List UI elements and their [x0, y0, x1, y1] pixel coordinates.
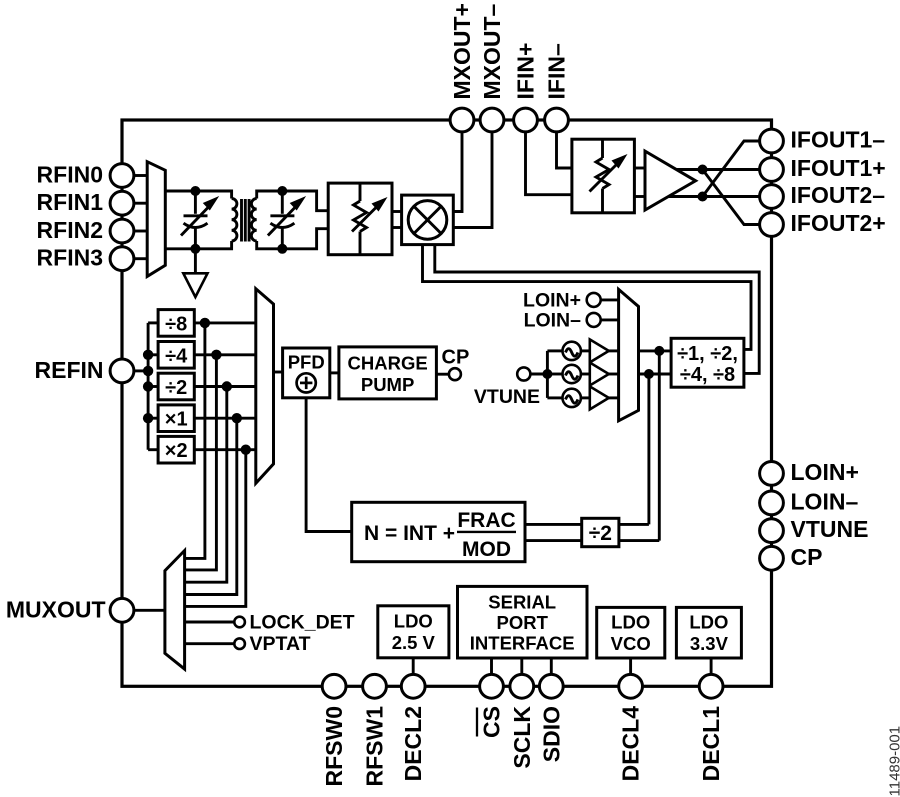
wire RFIN0 stub: [134, 174, 148, 177]
svg-text:IFOUT2+: IFOUT2+: [791, 210, 886, 236]
divider box div2: [158, 373, 194, 400]
node bus x1: [143, 413, 153, 423]
wire bus to div4: [148, 353, 158, 356]
svg-text:LDO: LDO: [611, 612, 650, 633]
svg-text:LOIN+: LOIN+: [791, 459, 859, 485]
pin IFOUT1+: [760, 158, 784, 182]
serial port interface block: [458, 586, 588, 658]
wire x1 down: [185, 418, 237, 594]
wire IF amp output top: [668, 168, 760, 171]
LOIN+ internal terminal: [587, 293, 601, 307]
svg-text:CP: CP: [791, 544, 823, 570]
pin DECL4: [619, 674, 643, 698]
wire VTUNE bus: [546, 351, 549, 398]
wire div2 down: [185, 387, 227, 583]
svg-text:RFIN3: RFIN3: [37, 245, 103, 271]
wire LO mux out lower: [639, 373, 672, 376]
div2 block: [582, 518, 619, 546]
multiplier box x2: [158, 436, 194, 463]
svg-text:LOCK_DET: LOCK_DET: [250, 612, 355, 634]
svg-text:PFD: PFD: [288, 352, 325, 373]
svg-text:CP: CP: [442, 347, 470, 369]
svg-text:×1: ×1: [165, 409, 188, 431]
svg-text:IFIN–: IFIN–: [544, 43, 570, 99]
svg-text:×2: ×2: [165, 440, 188, 462]
svg-text:÷4: ÷4: [165, 345, 188, 367]
pin IFOUT2-: [760, 185, 784, 209]
node div4 out: [211, 350, 221, 360]
pin RFIN1: [110, 191, 134, 215]
pin SCLK: [510, 674, 534, 698]
wire PFD feedback down: [306, 398, 352, 532]
pin REFIN: [110, 359, 134, 383]
wire PFD to charge pump: [330, 371, 339, 374]
oscillator VCO2: [563, 365, 581, 383]
wire attenuator to mixer bottom: [392, 226, 402, 229]
wire IF cross to IFOUT2+: [703, 170, 761, 225]
wire secondary bottom rail: [257, 229, 329, 249]
wire mixer to MXOUT-: [453, 132, 492, 228]
wire REFIN stub: [134, 369, 149, 372]
wire bus to osc2: [547, 373, 562, 376]
node LO upper: [654, 346, 664, 356]
wire mixer to MXOUT+: [453, 132, 462, 212]
wire VPTAT: [185, 642, 235, 645]
node bus REFIN: [143, 366, 153, 376]
wire LOIN+ stub: [601, 298, 619, 301]
pin MXOUT+: [450, 108, 474, 132]
svg-text:INTERFACE: INTERFACE: [470, 633, 575, 654]
wire LOCK_DET: [185, 621, 235, 624]
svg-text:DECL1: DECL1: [698, 706, 724, 782]
transformer T1 primary winding: [232, 199, 237, 242]
svg-text:VTUNE: VTUNE: [474, 386, 540, 408]
svg-text:MUXOUT: MUXOUT: [6, 596, 106, 622]
svg-text:PORT: PORT: [497, 612, 549, 633]
svg-text:CHARGE: CHARGE: [348, 353, 428, 374]
wire REF mux to PFD: [274, 371, 283, 374]
svg-text:DECL2: DECL2: [400, 706, 426, 781]
node RF bottom rail C2: [277, 244, 287, 254]
svg-text:IFOUT1+: IFOUT1+: [791, 155, 886, 181]
wire IFIN- to IF attenuator: [557, 132, 572, 168]
wire lower branch down to div2: [647, 374, 650, 524]
LOCK_DET terminal: [234, 617, 245, 628]
CP internal terminal: [449, 368, 461, 380]
wire div8 down: [185, 323, 205, 559]
svg-text:÷2: ÷2: [589, 522, 612, 545]
wire div2 out: [194, 385, 256, 388]
wire LOIN- stub: [601, 318, 619, 321]
LOIN- internal terminal: [587, 313, 601, 327]
wire osc2 to buffer: [581, 373, 590, 376]
svg-text:IFOUT2–: IFOUT2–: [791, 182, 886, 208]
LDO 3.3V block: [676, 607, 741, 658]
wire div4 out: [194, 353, 256, 356]
mixer symbol: [408, 201, 447, 240]
svg-text:LOIN–: LOIN–: [524, 310, 582, 332]
svg-text:RFIN1: RFIN1: [37, 189, 104, 215]
MUXOUT mux: [165, 551, 185, 670]
pin SDIO: [539, 674, 563, 698]
wire LDO2.5 to DECL2: [412, 658, 415, 675]
wire div4 down: [185, 355, 217, 570]
wire IF cross to IFOUT1-: [703, 141, 761, 197]
svg-text:REFIN: REFIN: [35, 357, 104, 383]
pin IFOUT1-: [760, 129, 784, 153]
wire x2 out: [194, 448, 256, 451]
svg-text:DECL4: DECL4: [618, 706, 644, 782]
buffer amp 3: [590, 386, 609, 409]
svg-text:SDIO: SDIO: [538, 706, 564, 762]
pin DECL1: [699, 674, 723, 698]
transformer T1 secondary winding: [251, 199, 256, 242]
wire IF attenuator to amp top: [634, 167, 648, 170]
node x2 out: [241, 445, 251, 455]
svg-text:VCO: VCO: [611, 633, 651, 654]
mixer block: [402, 195, 454, 245]
pin CS overline: [476, 708, 478, 737]
svg-text:MXOUT+: MXOUT+: [449, 3, 475, 99]
svg-text:÷8: ÷8: [165, 313, 187, 335]
pin CP right: [760, 546, 784, 570]
svg-text:RFIN2: RFIN2: [37, 217, 103, 243]
wire MUXOUT out: [134, 609, 165, 612]
pin RFIN2: [110, 219, 134, 243]
wire VTUNE to junction: [530, 373, 547, 376]
wire osc1 to buffer: [581, 349, 590, 352]
VPTAT terminal: [234, 638, 245, 649]
node LO lower: [644, 369, 654, 379]
pin RFIN3: [110, 247, 134, 271]
svg-text:LDO: LDO: [394, 611, 433, 632]
svg-text:CS: CS: [479, 706, 505, 738]
pin MUXOUT: [110, 598, 134, 622]
RF input mux: [147, 162, 165, 277]
wire RF bottom rail: [165, 241, 231, 249]
pin VTUNE right: [760, 519, 784, 543]
LDO 2.5V block: [378, 606, 449, 658]
divider box div4: [158, 342, 194, 369]
svg-text:IFOUT1–: IFOUT1–: [791, 127, 886, 153]
wire secondary top rail: [257, 191, 329, 211]
IF variable attenuator block: [572, 139, 635, 213]
wire RFIN1 stub: [134, 202, 148, 205]
divider box div8: [158, 310, 194, 337]
svg-text:SCLK: SCLK: [509, 706, 535, 769]
LO divider block: [671, 338, 744, 387]
wire charge pump to CP: [436, 373, 449, 376]
svg-text:N = INT +: N = INT +: [364, 522, 455, 545]
wire SPI to CS: [490, 658, 493, 675]
wire bus to osc1: [547, 349, 562, 352]
pin RFIN0: [110, 164, 134, 188]
svg-text:LDO: LDO: [689, 612, 728, 633]
wire bus to osc3: [547, 396, 562, 399]
wire RFIN3 stub: [134, 257, 148, 260]
wire IF attenuator to amp bottom: [634, 195, 648, 198]
oscillator VCO3: [563, 389, 581, 407]
node div8 out: [200, 318, 210, 328]
wire IFIN+ to IF attenuator: [526, 132, 572, 195]
multiplier box x1: [158, 405, 194, 432]
wire REF bus: [147, 323, 150, 450]
charge pump block: [339, 347, 437, 399]
pin RFSW0: [322, 674, 346, 698]
wire LDOVCO to DECL4: [629, 658, 632, 675]
node x1 out: [232, 413, 242, 423]
wire mixer LO inner: [435, 245, 759, 374]
svg-text:RFSW0: RFSW0: [321, 706, 347, 787]
wire bus to div2: [148, 385, 158, 388]
svg-text:LOIN+: LOIN+: [523, 290, 581, 312]
pin CS: [480, 674, 504, 698]
pin IFIN+: [514, 108, 538, 132]
wire x1 out: [194, 417, 256, 420]
node VTUNE junction: [542, 369, 552, 379]
svg-text:÷1, ÷2,: ÷1, ÷2,: [677, 343, 738, 365]
node IF out bottom: [698, 192, 708, 202]
node IF out top: [698, 165, 708, 175]
wire div8 out: [194, 321, 256, 324]
buffer amp 2: [590, 363, 609, 386]
svg-text:IFIN+: IFIN+: [513, 43, 539, 100]
buffer amp 1: [590, 339, 609, 362]
N divider block: [352, 502, 525, 561]
svg-text:SERIAL: SERIAL: [488, 592, 556, 613]
pin LOIN+ right: [760, 462, 784, 486]
svg-text:MXOUT–: MXOUT–: [479, 3, 505, 99]
variable capacitor C2: [268, 191, 306, 249]
node RF bottom rail C1: [190, 244, 200, 254]
wire upper branch down to N divider: [658, 351, 661, 541]
wire mixer LO outer: [423, 245, 752, 350]
wire bus to x2: [148, 448, 158, 451]
svg-text:FRAC: FRAC: [457, 509, 515, 532]
VTUNE internal terminal: [517, 367, 530, 380]
transformer T1 core: [240, 199, 243, 242]
wire LO mux out upper: [639, 349, 672, 352]
svg-text:VTUNE: VTUNE: [791, 516, 869, 542]
pin IFOUT2+: [760, 213, 784, 237]
oscillator VCO1: [563, 342, 581, 360]
svg-text:PUMP: PUMP: [361, 374, 414, 395]
wire LDO3.3 to DECL1: [710, 658, 713, 675]
wire bus to div8: [148, 321, 158, 324]
LDO VCO block: [597, 607, 665, 658]
svg-text:LOIN–: LOIN–: [791, 488, 859, 514]
wire SPI to SDIO: [550, 658, 553, 675]
wire x2 down: [185, 450, 246, 607]
node div2 out: [222, 381, 232, 391]
pin IFIN-: [545, 108, 569, 132]
variable capacitor C1: [181, 191, 219, 249]
wire N divider feedback upper: [525, 523, 649, 526]
svg-text:MOD: MOD: [462, 538, 511, 561]
PFD block U1: [283, 348, 330, 398]
LO mux: [619, 289, 639, 420]
PFD phase symbol: [297, 373, 316, 392]
wire bus to x1: [148, 417, 158, 420]
IF amplifier: [645, 151, 696, 210]
svg-text:2.5 V: 2.5 V: [392, 632, 436, 653]
pin RFSW1: [363, 674, 387, 698]
wire N divider feedback lower: [525, 539, 659, 542]
node bus div2: [143, 381, 153, 391]
wire SPI to SCLK: [520, 658, 523, 675]
svg-text:RFIN0: RFIN0: [37, 162, 103, 188]
wire IF amp output bottom: [664, 195, 760, 198]
chip outline: [122, 120, 772, 686]
node RF top rail C1: [190, 186, 200, 196]
pin LOIN- right: [760, 491, 784, 515]
wire attenuator to mixer top: [392, 210, 402, 213]
node RF top rail C2: [277, 186, 287, 196]
svg-text:VPTAT: VPTAT: [250, 633, 311, 655]
node bus div4: [143, 350, 153, 360]
svg-text:11489-001: 11489-001: [887, 726, 900, 797]
wire RF top rail: [165, 191, 231, 199]
pin MXOUT-: [480, 108, 504, 132]
svg-text:3.3V: 3.3V: [690, 633, 729, 654]
RF variable attenuator block: [328, 183, 392, 255]
svg-text:÷4, ÷8: ÷4, ÷8: [680, 364, 735, 386]
pin DECL2: [401, 674, 425, 698]
wire osc3 to buffer: [581, 396, 590, 399]
ground: [194, 249, 197, 273]
svg-text:RFSW1: RFSW1: [362, 706, 388, 787]
svg-text:÷2: ÷2: [165, 377, 187, 399]
REF mux: [256, 289, 274, 484]
wire RFIN2 stub: [134, 230, 148, 233]
